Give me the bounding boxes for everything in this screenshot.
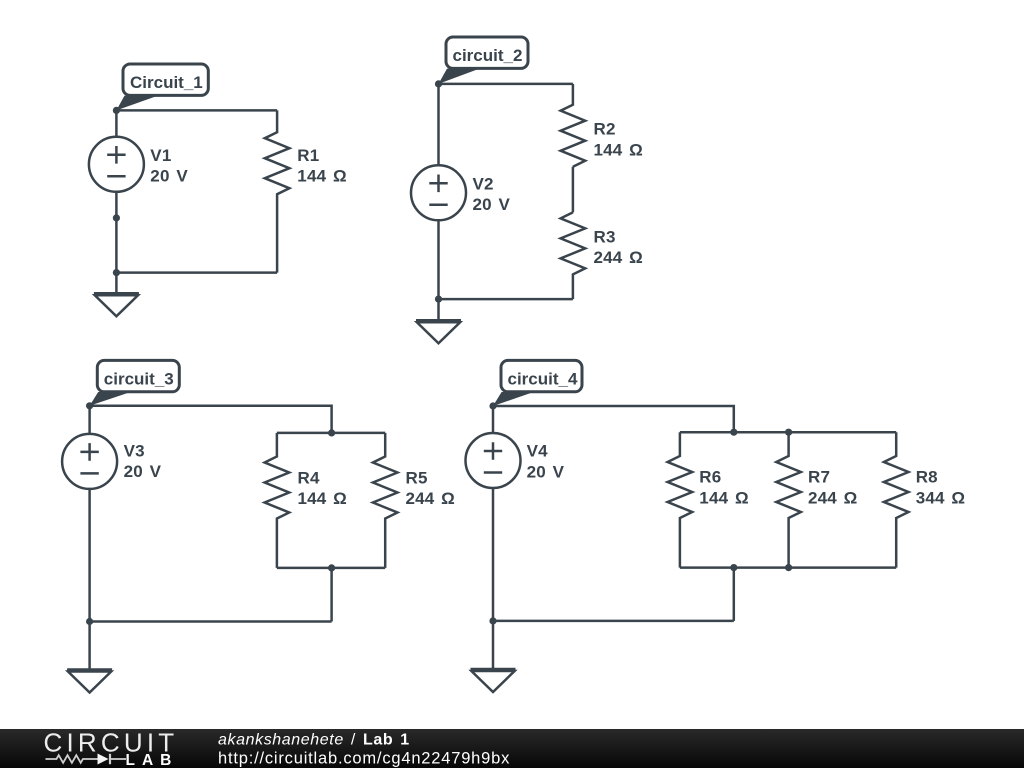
- junction dot c3 bottom rail: [328, 564, 335, 571]
- junction dot c1 bottom corner: [113, 269, 120, 276]
- resistor R8: [884, 432, 965, 567]
- wire node to V3 top: [88, 406, 91, 434]
- junction dot c4 bottom left: [489, 617, 496, 624]
- resistor R2: [561, 84, 643, 167]
- resistor R4: [265, 433, 347, 568]
- junction dot c4 top rail feed: [730, 429, 737, 436]
- wire top c2: [439, 83, 573, 86]
- junction dot c3 top rail: [328, 429, 335, 436]
- junction dot c3 bottom left: [86, 618, 93, 625]
- ground c3: [67, 622, 112, 693]
- wire V3 bottom: [88, 489, 91, 622]
- ground c2: [416, 299, 461, 343]
- node A4 junction dot: [489, 402, 496, 409]
- ground c4: [471, 621, 516, 692]
- wire rail down c4: [733, 568, 736, 621]
- wire top c1: [116, 109, 277, 112]
- svg-text:http://circuitlab.com/cg4n2247: http://circuitlab.com/cg4n22479h9bx: [218, 750, 510, 768]
- wire V4 bottom: [492, 488, 495, 621]
- wire bottom rail c3: [277, 567, 385, 570]
- ground c1: [94, 273, 139, 317]
- label callout circuit_2: [439, 37, 529, 84]
- resistor R1: [265, 110, 347, 272]
- wire V2 bottom: [437, 220, 440, 299]
- logo squiggle resistor diode: [46, 754, 127, 764]
- wire node to V4 top: [492, 406, 495, 433]
- node A2 junction dot: [435, 80, 442, 87]
- junction dot c2 bottom: [435, 296, 442, 303]
- label callout Circuit_1: [116, 64, 208, 110]
- wire bottom c4: [493, 620, 734, 623]
- wire R2-R3: [572, 167, 575, 213]
- wire bottom c2: [439, 298, 573, 301]
- wire top c4: [493, 406, 734, 432]
- node A3 junction dot: [86, 402, 93, 409]
- resistor R5: [373, 433, 455, 568]
- junction dot c4 bottom rail R7: [785, 564, 792, 571]
- junction dot c4 top rail R7: [785, 429, 792, 436]
- voltage source V3: [62, 434, 162, 489]
- wire bottom c1: [116, 271, 277, 274]
- wire node to V2 top: [437, 84, 440, 165]
- svg-text:LAB: LAB: [126, 752, 179, 768]
- voltage source V4: [466, 433, 565, 488]
- wire rail down c3: [330, 568, 333, 622]
- junction dot V1 terminal: [113, 214, 120, 221]
- resistor R7: [776, 432, 857, 567]
- junction dot c4 bottom rail feed: [730, 564, 737, 571]
- svg-text:akankshanehete / Lab 1: akankshanehete / Lab 1: [218, 732, 410, 749]
- voltage source V2: [411, 165, 511, 220]
- resistor R3: [561, 212, 643, 299]
- wire top c3: [90, 406, 332, 433]
- wire bottom rail c4: [680, 566, 896, 569]
- wire top rail c4: [680, 431, 896, 434]
- node A1 junction dot: [113, 107, 120, 114]
- wire node to V1 top: [115, 110, 118, 136]
- label callout circuit_3: [90, 360, 180, 405]
- logo diode triangle: [98, 754, 109, 765]
- wire top rail c3: [277, 432, 385, 435]
- label callout circuit_4: [493, 360, 582, 406]
- wire bottom c3: [90, 620, 332, 623]
- footer bar: [0, 729, 1024, 768]
- wire V1 bottom: [115, 192, 118, 273]
- voltage source V1: [89, 137, 188, 192]
- resistor R6: [668, 432, 749, 567]
